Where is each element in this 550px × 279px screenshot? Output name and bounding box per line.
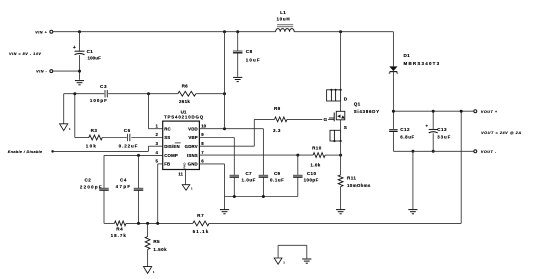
- svg-text:G: G: [323, 117, 327, 122]
- svg-text:R3: R3: [91, 128, 98, 133]
- svg-text:C2: C2: [85, 178, 92, 183]
- svg-text:R6: R6: [182, 84, 189, 89]
- svg-text:DIS/EN: DIS/EN: [164, 144, 180, 149]
- svg-text:C12: C12: [400, 127, 410, 132]
- svg-text:L1: L1: [280, 10, 286, 15]
- svg-text:6: 6: [201, 159, 204, 164]
- svg-text:C3: C3: [100, 84, 107, 89]
- svg-text:2: 2: [155, 132, 158, 137]
- svg-text:VDD: VDD: [188, 126, 198, 131]
- svg-text:GDRV: GDRV: [185, 144, 198, 149]
- svg-text:1: 1: [155, 123, 158, 128]
- svg-text:0.22uF: 0.22uF: [119, 143, 139, 148]
- svg-text:R4: R4: [116, 227, 123, 232]
- svg-text:7: 7: [201, 150, 204, 155]
- svg-text:VIN = 8V - 14V: VIN = 8V - 14V: [9, 52, 41, 56]
- svg-text:3: 3: [155, 141, 158, 146]
- svg-text:100uF: 100uF: [88, 56, 102, 61]
- svg-text:1: 1: [153, 270, 155, 274]
- svg-text:261k: 261k: [179, 99, 190, 104]
- svg-text:10uH: 10uH: [276, 17, 290, 22]
- svg-text:1.0uF: 1.0uF: [242, 178, 256, 183]
- svg-text:3.3: 3.3: [273, 128, 281, 133]
- svg-text:VIN -: VIN -: [36, 70, 47, 74]
- svg-text:8: 8: [201, 141, 204, 146]
- svg-text:COMP: COMP: [164, 153, 178, 158]
- svg-text:2200pF: 2200pF: [80, 184, 103, 189]
- svg-text:C13: C13: [437, 127, 447, 132]
- svg-text:100pF: 100pF: [304, 178, 319, 183]
- svg-text:6.8uF: 6.8uF: [400, 135, 414, 140]
- svg-text:R11: R11: [347, 175, 356, 180]
- svg-text:D1: D1: [404, 53, 411, 58]
- svg-text:18.7k: 18.7k: [111, 233, 127, 238]
- svg-text:C10: C10: [307, 171, 317, 176]
- svg-text:+: +: [73, 45, 76, 51]
- svg-text:Si4386DY: Si4386DY: [354, 109, 380, 114]
- svg-text:11: 11: [178, 171, 183, 176]
- svg-text:VOUT +: VOUT +: [481, 110, 498, 114]
- svg-text:VBP: VBP: [188, 135, 198, 140]
- svg-text:100pF: 100pF: [90, 98, 108, 103]
- svg-text:C5: C5: [124, 128, 131, 133]
- svg-text:VOUT = 24V @ 2A: VOUT = 24V @ 2A: [481, 131, 522, 135]
- svg-text:R5: R5: [153, 239, 160, 244]
- svg-text:R9: R9: [274, 106, 281, 111]
- svg-text:ISNS: ISNS: [187, 153, 198, 158]
- svg-text:0.1uF: 0.1uF: [270, 178, 284, 183]
- svg-text:1.50k: 1.50k: [153, 247, 167, 252]
- svg-text:+: +: [425, 125, 428, 130]
- svg-text:Enable / Disable: Enable / Disable: [8, 150, 43, 154]
- svg-text:47pF: 47pF: [116, 184, 132, 189]
- svg-text:R7: R7: [197, 213, 204, 218]
- svg-text:C1: C1: [87, 49, 94, 54]
- svg-text:C7: C7: [246, 171, 253, 176]
- svg-text:PAD: PAD: [183, 162, 187, 169]
- svg-text:51.1k: 51.1k: [193, 229, 210, 234]
- svg-text:4: 4: [155, 150, 158, 155]
- svg-text:C9: C9: [274, 171, 281, 176]
- svg-text:VIN +: VIN +: [35, 30, 47, 34]
- svg-text:5: 5: [155, 159, 158, 164]
- svg-text:FB: FB: [164, 162, 170, 167]
- svg-text:RC: RC: [164, 126, 171, 131]
- svg-text:D: D: [344, 97, 348, 102]
- svg-text:R10: R10: [312, 146, 322, 151]
- svg-text:SS: SS: [164, 135, 170, 140]
- svg-text:MBRS340T3: MBRS340T3: [404, 61, 441, 66]
- svg-text:C8: C8: [246, 49, 253, 54]
- svg-text:1: 1: [283, 261, 285, 265]
- svg-text:33uF: 33uF: [437, 135, 451, 140]
- svg-text:VOUT -: VOUT -: [481, 150, 497, 154]
- svg-text:10mOhms: 10mOhms: [347, 183, 371, 188]
- svg-text:1.0k: 1.0k: [310, 162, 320, 167]
- svg-text:C4: C4: [120, 178, 127, 183]
- svg-text:10uF: 10uF: [246, 57, 261, 62]
- svg-text:TPS40210DGQ: TPS40210DGQ: [164, 115, 204, 120]
- svg-text:10: 10: [201, 123, 206, 128]
- svg-text:Q1: Q1: [354, 102, 361, 107]
- svg-text:9: 9: [201, 132, 204, 137]
- svg-text:1: 1: [69, 127, 71, 131]
- svg-text:1: 1: [191, 187, 193, 191]
- svg-text:S: S: [344, 125, 347, 130]
- svg-text:10k: 10k: [86, 143, 97, 148]
- svg-text:GND: GND: [188, 162, 198, 167]
